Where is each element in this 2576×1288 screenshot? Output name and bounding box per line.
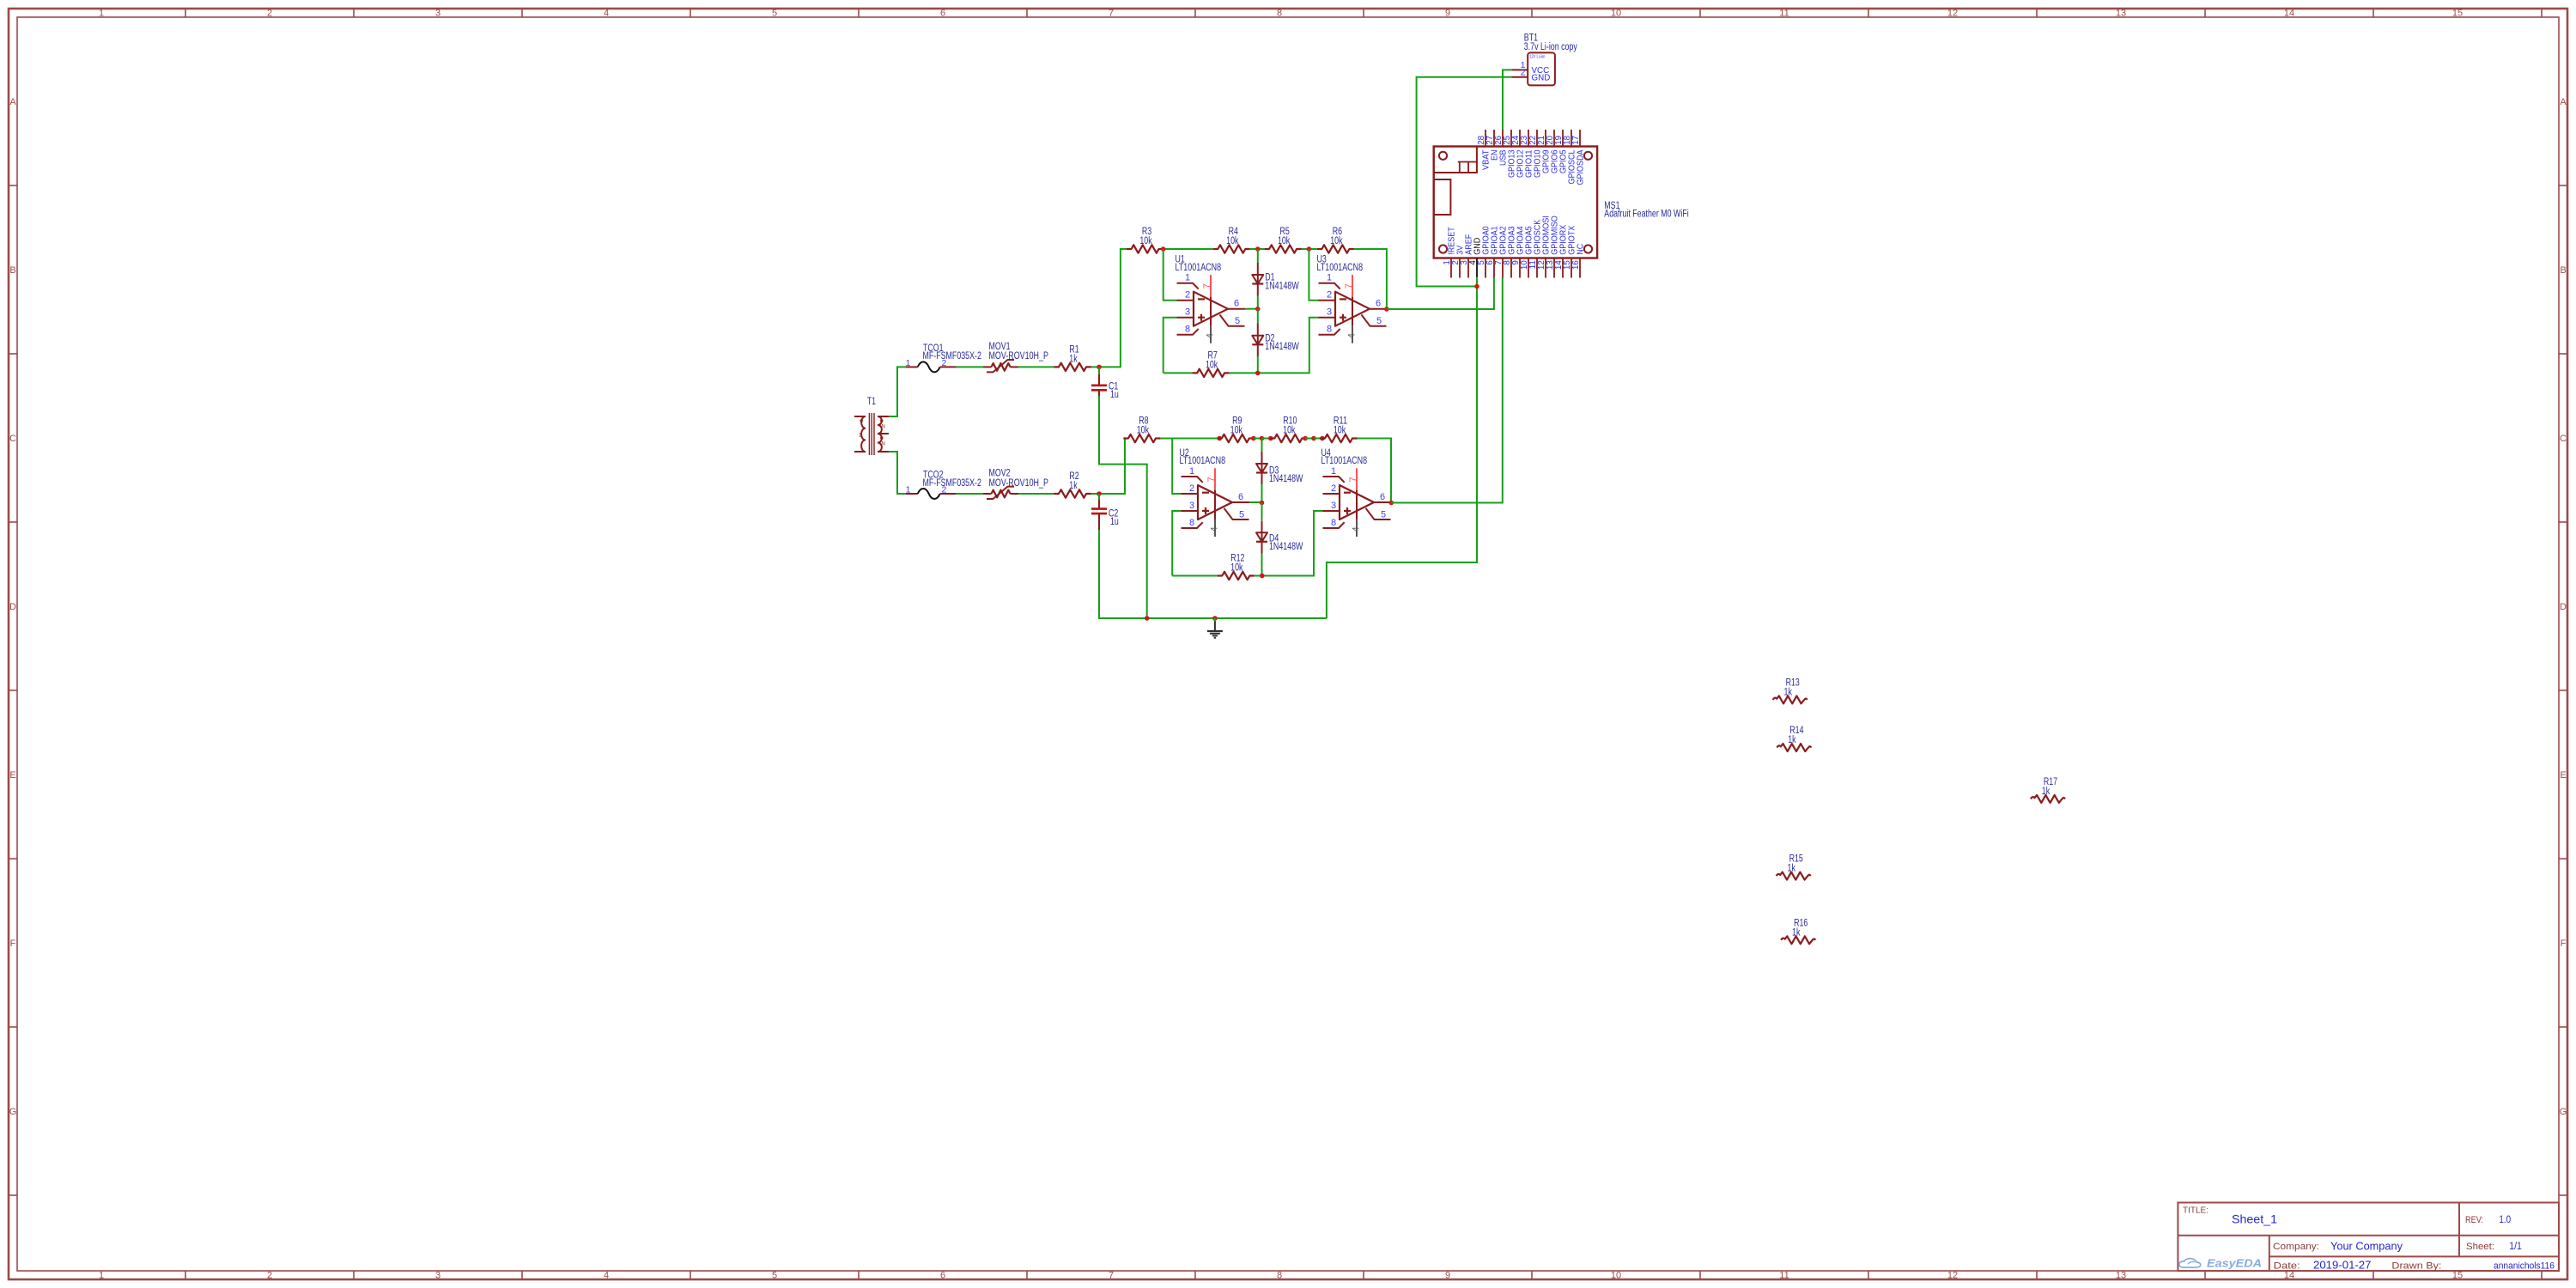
svg-text:LT1001ACN8: LT1001ACN8 bbox=[1176, 263, 1222, 273]
svg-text:3: 3 bbox=[1185, 307, 1190, 318]
svg-text:TITLE:: TITLE: bbox=[2183, 1205, 2208, 1215]
svg-text:LT1001ACN8: LT1001ACN8 bbox=[1180, 456, 1226, 466]
svg-text:14: 14 bbox=[2284, 9, 2294, 19]
svg-text:1u: 1u bbox=[1110, 517, 1119, 527]
svg-text:7: 7 bbox=[1202, 283, 1212, 289]
svg-text:13: 13 bbox=[2116, 9, 2126, 19]
resistor R4 bbox=[1213, 245, 1250, 252]
svg-text:6: 6 bbox=[940, 1271, 945, 1281]
wire U1 output to node bbox=[1245, 308, 1258, 310]
wire U4 pin2 node to R11 bbox=[1314, 438, 1322, 440]
capacitor C2 bbox=[1098, 494, 1100, 500]
svg-text:4: 4 bbox=[1209, 526, 1219, 532]
svg-text:Drawn By:: Drawn By: bbox=[2391, 1261, 2441, 1271]
svg-text:7: 7 bbox=[1206, 477, 1217, 482]
wire TCO2 to MOV2 bbox=[957, 493, 984, 495]
junction D2 bottom node bbox=[1255, 371, 1261, 376]
wire R12 rail right to U4 pin3 bbox=[1255, 511, 1323, 576]
resistor R10 bbox=[1270, 434, 1307, 442]
svg-text:1: 1 bbox=[906, 485, 911, 495]
svg-text:12V Li-ion: 12V Li-ion bbox=[1529, 55, 1545, 60]
svg-text:Adafruit Feather M0 WiFi: Adafruit Feather M0 WiFi bbox=[1604, 209, 1688, 219]
resistor R16 bbox=[1781, 936, 1815, 944]
svg-text:5: 5 bbox=[1239, 509, 1244, 519]
svg-text:1: 1 bbox=[906, 358, 911, 368]
svg-text:1.0: 1.0 bbox=[2499, 1215, 2511, 1225]
wire R12 rail left bbox=[1172, 575, 1218, 577]
wire R6 feedback to U3 output bbox=[1354, 249, 1387, 309]
svg-text:8: 8 bbox=[1327, 325, 1332, 335]
svg-text:Sheet_1: Sheet_1 bbox=[2232, 1212, 2277, 1226]
svg-text:3: 3 bbox=[435, 1271, 440, 1281]
diode D3 bbox=[1261, 452, 1263, 485]
diode D4 bbox=[1261, 520, 1263, 554]
svg-text:Sheet:: Sheet: bbox=[2466, 1242, 2494, 1252]
wire R7 rail right to U3 pin3 bbox=[1230, 318, 1319, 374]
svg-text:2: 2 bbox=[1185, 290, 1190, 301]
svg-text:7: 7 bbox=[1109, 1271, 1114, 1281]
svg-text:C: C bbox=[2560, 434, 2567, 444]
wire U1 output node to D2 bbox=[1257, 309, 1259, 324]
svg-text:B: B bbox=[9, 265, 15, 276]
svg-text:8: 8 bbox=[1277, 1271, 1282, 1281]
junction R1-C1 node bbox=[1097, 365, 1102, 370]
svg-text:A: A bbox=[2560, 97, 2567, 107]
svg-text:6: 6 bbox=[1380, 492, 1385, 502]
diode D1 bbox=[1257, 263, 1259, 296]
wire U3 output to MS1 GPIOA1 bbox=[1387, 278, 1494, 310]
svg-text:6: 6 bbox=[940, 9, 945, 19]
svg-text:1k: 1k bbox=[1788, 735, 1796, 745]
wire U2 pin2 from rail bbox=[1172, 439, 1181, 495]
wire U4 output node bbox=[1390, 501, 1392, 503]
junction U3 output node bbox=[1384, 307, 1389, 312]
svg-text:N: N bbox=[882, 425, 885, 430]
svg-text:2: 2 bbox=[942, 358, 947, 368]
svg-text:EasyEDA: EasyEDA bbox=[2207, 1257, 2262, 1270]
module MS1 bottom pins 1-16 bbox=[1450, 258, 1452, 278]
svg-text:5: 5 bbox=[1376, 316, 1382, 326]
wire U4 output to MS1 GPIOA2 bbox=[1391, 278, 1503, 503]
svg-text:2: 2 bbox=[1521, 67, 1526, 77]
svg-text:3: 3 bbox=[435, 9, 440, 19]
junction U4 pin2 node bbox=[1311, 436, 1316, 441]
svg-text:LT1001ACN8: LT1001ACN8 bbox=[1321, 456, 1368, 466]
capacitor C1 bbox=[1098, 367, 1100, 374]
svg-text:1: 1 bbox=[1327, 273, 1332, 283]
module MS1 body bbox=[1434, 147, 1597, 258]
svg-text:1: 1 bbox=[99, 9, 104, 19]
resistor R11 bbox=[1321, 434, 1358, 442]
svg-text:17: 17 bbox=[1571, 136, 1581, 145]
wire R4 to R5 bbox=[1250, 248, 1265, 250]
wire D3 node to R10 bbox=[1262, 438, 1271, 440]
svg-text:D: D bbox=[2560, 602, 2567, 612]
svg-text:1N4148W: 1N4148W bbox=[1265, 342, 1299, 352]
diode D2 bbox=[1257, 324, 1259, 357]
svg-text:2: 2 bbox=[1327, 290, 1332, 301]
svg-text:MOV1: MOV1 bbox=[989, 342, 1011, 352]
resistor R1 bbox=[1054, 363, 1091, 371]
wire R9 to D3 node bbox=[1254, 438, 1262, 440]
svg-text:10k: 10k bbox=[1226, 236, 1238, 246]
svg-text:6: 6 bbox=[1238, 492, 1243, 502]
junction U4 output node bbox=[1389, 501, 1394, 506]
svg-text:1k: 1k bbox=[1069, 481, 1078, 491]
svg-text:3: 3 bbox=[1327, 307, 1332, 318]
svg-text:3: 3 bbox=[1189, 501, 1194, 511]
wire node to R8 riser bbox=[1099, 439, 1125, 495]
svg-text:MF-FSMF035X-2: MF-FSMF035X-2 bbox=[923, 478, 981, 489]
op-amp U2 bbox=[1198, 485, 1232, 519]
svg-text:Your Company: Your Company bbox=[2330, 1240, 2403, 1252]
svg-text:T1: T1 bbox=[867, 397, 876, 407]
junction C1 path to ground rail bbox=[1145, 616, 1150, 621]
junction R2-C2 node bbox=[1097, 491, 1102, 496]
svg-text:LT1001ACN8: LT1001ACN8 bbox=[1317, 263, 1364, 273]
svg-text:GND: GND bbox=[1532, 73, 1551, 82]
frame grid ticks bbox=[185, 9, 186, 17]
svg-text:MOV-ROV10H_P: MOV-ROV10H_P bbox=[989, 351, 1049, 361]
wire MOV2 to R2 bbox=[1018, 493, 1054, 495]
wire T1 bottom to TCO2 bbox=[889, 452, 906, 494]
wire D4 to R12 rail bbox=[1261, 554, 1263, 576]
resistor R15 bbox=[1777, 872, 1811, 880]
svg-text:5: 5 bbox=[1381, 509, 1386, 519]
svg-text:1N4148W: 1N4148W bbox=[1269, 474, 1303, 484]
resistor R14 bbox=[1777, 744, 1811, 751]
resistor R7 bbox=[1193, 369, 1230, 377]
wire BT1 GND to MS1 GND net bbox=[1417, 77, 1512, 287]
svg-text:C: C bbox=[9, 434, 16, 444]
svg-text:5: 5 bbox=[772, 1271, 777, 1281]
svg-text:12: 12 bbox=[1947, 9, 1958, 19]
svg-text:E: E bbox=[9, 770, 15, 781]
svg-text:1: 1 bbox=[1189, 466, 1194, 477]
svg-text:1k: 1k bbox=[2042, 787, 2050, 797]
wire TCO1 to MOV1 bbox=[957, 366, 984, 368]
svg-text:annanichols116: annanichols116 bbox=[2494, 1261, 2555, 1271]
wire U2 pin3 to R12 rail bbox=[1172, 511, 1181, 576]
wire R5 to R6 bbox=[1302, 248, 1317, 250]
svg-text:15: 15 bbox=[2452, 1271, 2463, 1281]
svg-text:1k: 1k bbox=[1788, 864, 1796, 874]
wire U2 output node to D4 bbox=[1261, 503, 1263, 521]
resistor R9 bbox=[1217, 434, 1254, 442]
svg-text:1k: 1k bbox=[1069, 354, 1078, 364]
svg-text:Company:: Company: bbox=[2273, 1242, 2319, 1252]
wire ground rail to MS1 GND bbox=[1327, 287, 1477, 619]
fuse TCO2 bbox=[906, 493, 918, 495]
svg-text:4: 4 bbox=[604, 1271, 609, 1281]
svg-text:1k: 1k bbox=[1792, 927, 1801, 938]
wire BT1 VCC to MS1 USB pin bbox=[1503, 70, 1511, 130]
wire R11 feedback to U4 output bbox=[1358, 439, 1392, 503]
wire R3 to R4 bbox=[1163, 248, 1213, 250]
junction D1 top node bbox=[1255, 246, 1261, 252]
wire R8 to R9 bbox=[1160, 438, 1217, 440]
fuse TCO1 bbox=[906, 366, 918, 368]
svg-text:1N4148W: 1N4148W bbox=[1269, 542, 1303, 552]
svg-text:1N4148W: 1N4148W bbox=[1265, 281, 1299, 291]
svg-text:N: N bbox=[882, 442, 885, 447]
svg-text:3: 3 bbox=[1331, 501, 1336, 511]
svg-text:2: 2 bbox=[942, 485, 947, 495]
op-amp U3 bbox=[1335, 292, 1370, 326]
svg-text:7: 7 bbox=[1348, 477, 1358, 482]
svg-text:16: 16 bbox=[1571, 260, 1581, 270]
svg-text:G: G bbox=[2560, 1107, 2567, 1117]
module MS1 top pins 28-17 bbox=[1485, 130, 1486, 147]
svg-text:MOV2: MOV2 bbox=[989, 469, 1011, 479]
svg-text:10k: 10k bbox=[1137, 426, 1149, 436]
resistor R3 bbox=[1127, 245, 1163, 252]
wire node to R3 riser bbox=[1099, 249, 1127, 367]
svg-text:9: 9 bbox=[1445, 9, 1450, 19]
svg-text:MOV-ROV10H_P: MOV-ROV10H_P bbox=[989, 478, 1049, 489]
junction R11 left node bbox=[1320, 436, 1325, 441]
wire ground rail bbox=[1098, 617, 1327, 619]
svg-text:10k: 10k bbox=[1330, 236, 1342, 246]
svg-text:1: 1 bbox=[99, 1271, 104, 1281]
svg-text:1: 1 bbox=[1185, 273, 1190, 283]
junction U2 output node bbox=[1260, 501, 1265, 506]
svg-text:5: 5 bbox=[772, 9, 777, 19]
op-amp U1 bbox=[1194, 292, 1228, 326]
svg-text:5: 5 bbox=[1235, 316, 1240, 326]
svg-text:F: F bbox=[2561, 939, 2567, 949]
svg-text:GPIOSDA: GPIOSDA bbox=[1577, 149, 1586, 185]
svg-text:4: 4 bbox=[1351, 526, 1361, 532]
junction U1 output node bbox=[1255, 307, 1261, 312]
junction U1 pin2 node bbox=[1161, 246, 1166, 252]
svg-text:14: 14 bbox=[2284, 1271, 2294, 1281]
wire C1 to ground riser bbox=[1099, 396, 1147, 618]
wire R7 rail left bbox=[1163, 372, 1193, 374]
svg-text:3.7v Li-ion copy: 3.7v Li-ion copy bbox=[1524, 42, 1577, 52]
resistor R8 bbox=[1123, 434, 1160, 442]
wire R10 to U4 pin2 node bbox=[1305, 438, 1314, 440]
svg-text:2019-01-27: 2019-01-27 bbox=[2313, 1259, 2372, 1271]
svg-text:E: E bbox=[2560, 770, 2566, 781]
svg-text:REV:: REV: bbox=[2465, 1215, 2483, 1225]
svg-text:NC: NC bbox=[1577, 244, 1586, 255]
wire R1 to node bbox=[1091, 366, 1100, 368]
op-amp U4 bbox=[1340, 485, 1374, 519]
resistor R2 bbox=[1054, 489, 1091, 497]
svg-text:A: A bbox=[9, 97, 16, 107]
svg-text:8: 8 bbox=[1189, 518, 1194, 528]
svg-text:F: F bbox=[10, 939, 16, 949]
junction R10 left node bbox=[1268, 436, 1273, 441]
svg-text:10k: 10k bbox=[1230, 563, 1242, 574]
junction R9 left node bbox=[1217, 436, 1222, 441]
wire T1 top to TCO1 bbox=[889, 367, 906, 416]
svg-text:8: 8 bbox=[1277, 9, 1282, 19]
EasyEDA logo bbox=[2179, 1259, 2201, 1267]
wire R2 to node bbox=[1091, 493, 1100, 495]
title block grid bbox=[2178, 1203, 2559, 1272]
wire D3 to U2 output node bbox=[1261, 484, 1263, 503]
wire MS1 pin4 stub to GND net bbox=[1476, 278, 1478, 287]
svg-text:10k: 10k bbox=[1206, 360, 1218, 370]
wire C2 to ground rail bbox=[1098, 530, 1100, 618]
svg-text:2: 2 bbox=[1331, 483, 1336, 494]
junction D3 top node bbox=[1260, 436, 1265, 441]
resistor R5 bbox=[1265, 245, 1302, 252]
svg-text:G: G bbox=[9, 1107, 17, 1117]
junction ground symbol node bbox=[1212, 616, 1218, 621]
svg-text:13: 13 bbox=[2116, 1271, 2126, 1281]
svg-text:10: 10 bbox=[1611, 9, 1621, 19]
svg-text:10k: 10k bbox=[1139, 236, 1151, 246]
svg-text:1k: 1k bbox=[1784, 687, 1793, 697]
svg-text:4: 4 bbox=[604, 9, 609, 19]
svg-text:9: 9 bbox=[1445, 1271, 1450, 1281]
svg-text:15: 15 bbox=[2452, 9, 2463, 19]
resistor R13 bbox=[1773, 696, 1807, 703]
svg-text:12: 12 bbox=[1947, 1271, 1958, 1281]
svg-text:MF-FSMF035X-2: MF-FSMF035X-2 bbox=[923, 351, 981, 361]
svg-text:10k: 10k bbox=[1283, 426, 1295, 436]
wire U2 output to node bbox=[1249, 501, 1262, 503]
junction R9 right node bbox=[1251, 436, 1256, 441]
svg-text:6: 6 bbox=[1234, 299, 1239, 309]
svg-text:11: 11 bbox=[1779, 9, 1789, 19]
svg-text:1: 1 bbox=[1331, 466, 1336, 477]
svg-text:10k: 10k bbox=[1278, 236, 1290, 246]
svg-text:Date:: Date: bbox=[2274, 1261, 2300, 1271]
junction R10 right node bbox=[1303, 436, 1308, 441]
junction MS1 GND node bbox=[1474, 284, 1479, 289]
svg-text:11: 11 bbox=[1779, 1271, 1789, 1281]
wire D1 to U1 output node bbox=[1257, 295, 1259, 309]
svg-text:D: D bbox=[9, 602, 16, 612]
resistor R17 bbox=[2031, 795, 2065, 803]
svg-text:7: 7 bbox=[1344, 283, 1354, 289]
svg-text:7: 7 bbox=[1109, 9, 1114, 19]
junction U3 pin2 node bbox=[1307, 246, 1312, 252]
varistor MOV1 bbox=[983, 366, 992, 368]
wire U3 pin2 from rail bbox=[1309, 249, 1318, 301]
resistor R12 bbox=[1218, 572, 1255, 580]
svg-text:8: 8 bbox=[1331, 518, 1336, 528]
ground symbol bbox=[1214, 618, 1216, 622]
wire D2 to R7 rail bbox=[1257, 356, 1259, 373]
svg-text:4: 4 bbox=[1346, 333, 1357, 338]
varistor MOV2 bbox=[983, 493, 992, 495]
svg-text:B: B bbox=[2560, 265, 2566, 276]
svg-text:10: 10 bbox=[1611, 1271, 1621, 1281]
svg-text:4: 4 bbox=[1205, 333, 1215, 338]
svg-text:8: 8 bbox=[1185, 325, 1190, 335]
svg-text:1/1: 1/1 bbox=[2509, 1242, 2522, 1252]
wire U3 output node bbox=[1386, 308, 1388, 310]
wire rail to D3 bbox=[1261, 439, 1263, 453]
svg-text:1u: 1u bbox=[1110, 390, 1119, 400]
svg-text:2: 2 bbox=[267, 9, 272, 19]
wire U1 pin2 from rail bbox=[1163, 249, 1177, 301]
svg-text:2: 2 bbox=[1189, 483, 1194, 494]
resistor R6 bbox=[1317, 245, 1354, 252]
wire rail to D1 bbox=[1257, 249, 1259, 263]
svg-text:10k: 10k bbox=[1334, 426, 1346, 436]
wire U1 pin3 to R7 rail bbox=[1163, 318, 1177, 374]
junction D4 bottom node bbox=[1260, 574, 1265, 579]
wire MOV1 to R1 bbox=[1018, 366, 1054, 368]
svg-text:6: 6 bbox=[1376, 299, 1381, 309]
svg-text:10k: 10k bbox=[1230, 426, 1242, 436]
svg-text:2: 2 bbox=[267, 1271, 272, 1281]
